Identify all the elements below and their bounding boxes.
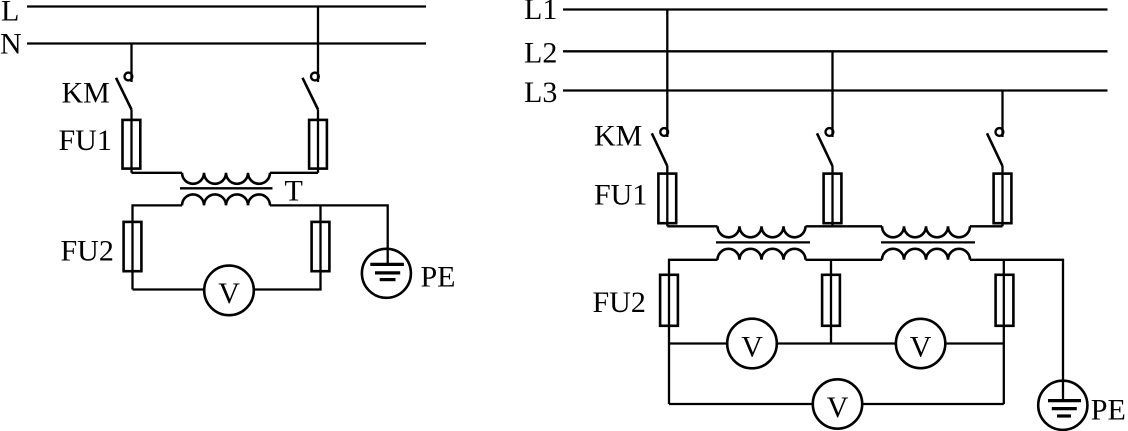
wire junction through FU2 c [1003, 260, 1005, 404]
transformer T2 primary winding [882, 226, 970, 237]
wire secondary left down through FU2 [133, 205, 183, 289]
wire middle V1 to V2 [777, 342, 896, 344]
wire bottom to voltmeter [133, 288, 205, 290]
wire L1 to KM contact 1 [666, 10, 668, 138]
voltmeter V1 [727, 319, 777, 369]
svg-text:V: V [218, 277, 240, 310]
KM contact right circle [311, 73, 319, 81]
KM contact right blade [303, 78, 319, 110]
wire N to KM left contact [130, 44, 132, 83]
transformer T core [180, 187, 273, 189]
KM contact 2 circle [826, 128, 834, 136]
wire L3 to KM contact 3 [1001, 91, 1003, 138]
wire secondary right to PE [270, 205, 388, 264]
voltmeter V [204, 266, 254, 316]
fuse FU1 c [994, 174, 1012, 224]
wire L to KM right contact [317, 7, 319, 83]
fuse FU1 b [824, 174, 842, 224]
KM contact 2 blade [817, 133, 833, 166]
KM contact 1 circle [660, 128, 668, 136]
KM contact 3 blade [987, 133, 1003, 166]
transformer T1 primary winding [718, 226, 806, 237]
transformer T2 secondary winding [882, 249, 970, 260]
svg-text:V: V [910, 330, 932, 363]
svg-text:KM: KM [62, 77, 110, 110]
KM contact 1 blade [652, 133, 668, 166]
svg-text:V: V [741, 330, 763, 363]
svg-text:FU1: FU1 [59, 124, 112, 157]
wire FU1 a to T1 primary [667, 225, 717, 227]
fuse FU2 right [312, 222, 330, 271]
wire bottom left [669, 403, 813, 405]
svg-text:L: L [1, 0, 19, 27]
wire FU1 left to primary [132, 172, 183, 174]
wire blade through FU1 left [130, 110, 132, 173]
wire junction through FU2 b [830, 260, 832, 344]
bus line L1 [563, 8, 1108, 10]
transformer T2 core [881, 241, 975, 243]
bus line L2 [563, 50, 1108, 52]
KM contact 3 circle [996, 128, 1004, 136]
earth symbol PE right [1038, 381, 1087, 430]
wire blade through FU1 right [317, 110, 319, 173]
wire T1 primary to FU1 b [806, 225, 833, 227]
svg-text:N: N [0, 28, 22, 61]
wire voltmeter to FU2 right [254, 205, 321, 289]
transformer T1 core [716, 241, 810, 243]
svg-text:KM: KM [594, 119, 642, 152]
voltmeter V2 [896, 319, 945, 368]
wire FU1 b to T2 primary [833, 225, 883, 227]
svg-text:L2: L2 [524, 37, 557, 70]
transformer T secondary winding [182, 194, 270, 205]
transformer T primary winding [182, 173, 270, 184]
wire blade through FU1 b [831, 166, 833, 226]
wire bottom right [862, 403, 1004, 405]
KM contact left blade [116, 78, 132, 110]
wire secondary right to PE corner [970, 260, 1063, 401]
bus line L [27, 5, 426, 7]
fuse FU1 a [658, 174, 676, 224]
svg-text:V: V [827, 391, 849, 424]
svg-text:T: T [285, 175, 303, 208]
fuse FU2 c [996, 275, 1014, 326]
bus line L3 [563, 89, 1108, 91]
fuse FU2 a [660, 275, 678, 326]
svg-text:FU1: FU1 [594, 179, 647, 212]
wire middle V2 to right vertical [945, 342, 1004, 344]
wire primary to FU1 right [270, 172, 318, 174]
wire blade through FU1 a [666, 166, 668, 226]
transformer T1 secondary winding [718, 249, 806, 260]
fuse FU2 b [822, 275, 840, 326]
earth symbol PE [362, 249, 411, 298]
wire blade through FU1 c [1001, 166, 1003, 226]
svg-text:PE: PE [421, 260, 456, 293]
svg-text:L3: L3 [524, 76, 557, 109]
wire L2 to KM contact 2 [831, 51, 833, 137]
KM contact left circle [124, 73, 132, 81]
wire secondary T1 to T2 [806, 259, 883, 261]
wire secondary left branch through FU2 a [669, 260, 718, 404]
fuse FU1 right [309, 120, 327, 169]
svg-text:FU2: FU2 [593, 286, 646, 319]
wire middle left [669, 342, 727, 344]
voltmeter V3 [813, 379, 862, 428]
svg-text:PE: PE [1091, 393, 1126, 426]
wire T2 primary to FU1 c [970, 225, 1003, 227]
bus line N [27, 42, 426, 44]
svg-text:L1: L1 [524, 0, 557, 26]
fuse FU2 left [124, 222, 142, 271]
svg-text:FU2: FU2 [61, 234, 114, 267]
fuse FU1 left [123, 120, 141, 169]
